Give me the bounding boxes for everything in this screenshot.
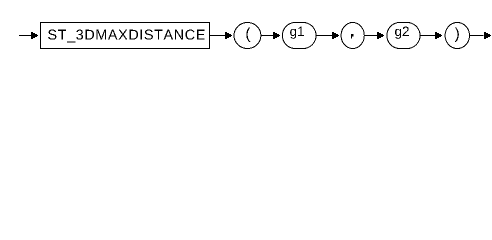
oval ) [445,23,469,49]
oval , [341,23,364,49]
label g2 [395,27,409,39]
wire ( to g1 [261,35,275,37]
arrowhead to g2 [377,32,384,39]
wire entry [19,35,33,37]
oval g2 [387,23,420,49]
arrowhead entry [31,32,38,39]
underscore of label (redrawn crisp) [67,42,75,43]
box ST_3DMAXDISTANCE [41,23,210,49]
oval g1 [282,23,316,49]
label g1 [290,27,304,39]
arrowhead to g1 [273,32,280,39]
wire box to ( [210,35,227,37]
label ) [455,27,459,41]
label ST_3DMAXDISTANCE [48,30,205,43]
wire exit [470,35,484,37]
arrowhead to , [332,32,339,39]
arrowhead to ( [225,32,232,39]
oval ( [234,23,261,49]
wire g2 to ) [420,35,437,37]
arrowhead exit [484,32,491,39]
arrowhead to ) [435,32,442,39]
wire , to g2 [364,35,378,37]
label , [351,34,353,39]
wire g1 to , [316,35,334,37]
label ( [246,27,250,41]
